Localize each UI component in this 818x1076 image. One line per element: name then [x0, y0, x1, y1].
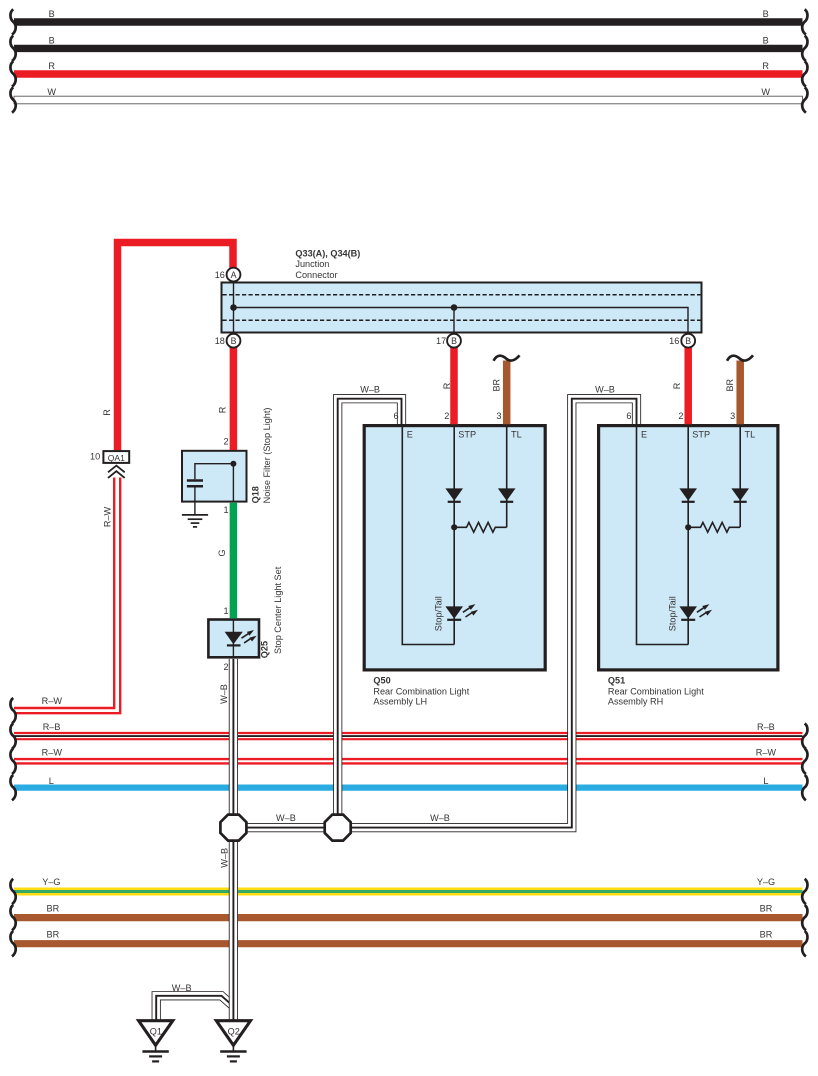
- diode Q51 STP: [679, 488, 697, 500]
- diode Q51 TL: [731, 488, 749, 500]
- LED diode Q25: [225, 632, 243, 645]
- svg-text:B: B: [451, 336, 457, 346]
- wire bus inside junction to pin16B: [234, 308, 689, 341]
- LED arrows Q25: [242, 630, 257, 643]
- LED diode Q51 stop/tail: [679, 606, 697, 618]
- svg-text:Connector: Connector: [295, 270, 337, 280]
- svg-text:R: R: [218, 406, 228, 413]
- wire bus R-B: [14, 733, 803, 739]
- svg-text:R: R: [762, 61, 769, 71]
- wire W-B branch octagon to Q1 ground: [156, 996, 232, 1022]
- svg-text:B: B: [49, 9, 55, 19]
- svg-text:3: 3: [730, 411, 735, 421]
- wire inside junction to pin17B: [453, 308, 455, 341]
- svg-text:A: A: [231, 270, 237, 280]
- svg-text:R–B: R–B: [757, 722, 775, 732]
- resistor Q51: [688, 522, 740, 532]
- svg-text:E: E: [641, 430, 647, 440]
- squiggle R-B right: [802, 723, 807, 748]
- svg-text:6: 6: [626, 411, 631, 421]
- svg-text:Y–G: Y–G: [42, 877, 60, 887]
- TOPBUSES: [10, 9, 807, 112]
- pin circle 17B: [447, 334, 461, 348]
- svg-text:Stop/Tail: Stop/Tail: [667, 596, 677, 631]
- svg-text:2: 2: [224, 436, 229, 446]
- svg-text:2: 2: [678, 411, 683, 421]
- svg-text:QA1: QA1: [108, 453, 125, 463]
- svg-text:3: 3: [496, 411, 501, 421]
- squiggle R-W left: [10, 749, 15, 774]
- svg-text:R: R: [672, 382, 682, 389]
- svg-text:Noise Filter (Stop Light): Noise Filter (Stop Light): [262, 408, 272, 504]
- svg-text:E: E: [407, 430, 413, 440]
- wire Q18 internal right leg: [232, 464, 234, 502]
- svg-text:16: 16: [215, 270, 225, 280]
- wire bus B (second): [14, 45, 803, 52]
- squiggle B top right: [802, 9, 807, 34]
- ground triangle Q1: [139, 1021, 173, 1046]
- svg-text:B: B: [49, 35, 55, 45]
- svg-text:W–B: W–B: [219, 848, 229, 868]
- squiggle Y-G left: [10, 879, 15, 904]
- LED arrows Q51: [697, 604, 712, 617]
- BOXES: [182, 426, 778, 670]
- squiggle R right: [802, 61, 807, 86]
- wire bus B (top): [14, 18, 803, 25]
- ground symbol Q2: [220, 1045, 246, 1061]
- pin circle 16A: [227, 268, 241, 282]
- svg-text:1: 1: [224, 505, 229, 515]
- svg-text:B: B: [685, 336, 691, 346]
- svg-text:B: B: [763, 35, 769, 45]
- ground symbol under Q18: [182, 515, 208, 527]
- squiggle R-W right: [802, 749, 807, 774]
- Q50 internals: [402, 427, 506, 645]
- svg-text:W–B: W–B: [430, 813, 450, 823]
- wire E leg Q51: [637, 427, 689, 645]
- squiggle W right: [802, 87, 807, 112]
- svg-text:BR: BR: [47, 929, 60, 939]
- wire W-B octagon1 to octagon2: [233, 823, 337, 832]
- wire E leg Q50: [402, 427, 454, 645]
- squiggle Y-G right: [802, 879, 807, 904]
- connector QA1 box: [103, 451, 129, 463]
- svg-text:Assembly LH: Assembly LH: [373, 697, 427, 707]
- wire W-B octagon2 to Q51 pin6: [338, 399, 637, 828]
- noise filter Q18 box: [182, 451, 247, 502]
- pin circle 16B right: [681, 334, 695, 348]
- capacitor C plate bottom: [187, 485, 203, 488]
- ground symbol Q1: [142, 1045, 168, 1061]
- squiggle B top left: [10, 9, 15, 34]
- svg-text:2: 2: [224, 662, 229, 672]
- svg-text:TL: TL: [511, 430, 522, 440]
- wire bus W: [14, 96, 803, 104]
- squiggle BR2 left: [10, 931, 15, 956]
- svg-text:Q51: Q51: [608, 676, 625, 686]
- squiggle R-B left: [10, 723, 15, 748]
- squiggle tilde above Q50 BR stub: [494, 355, 520, 361]
- squiggle L left: [10, 775, 15, 800]
- svg-text:L: L: [49, 776, 54, 786]
- connector QA1 chevrons: [108, 466, 125, 473]
- wire BR stub to Q50 TL pin3: [503, 361, 511, 425]
- svg-text:Q18: Q18: [250, 486, 260, 503]
- wire Q18 capacitor to ground: [194, 487, 196, 514]
- capacitor C plate top: [187, 479, 203, 482]
- squiggle W left: [10, 87, 15, 112]
- octagon splice node 2: [325, 815, 351, 841]
- stop center light Q25 box: [208, 620, 259, 658]
- wire R from QA1 up to junction pin 16A: [118, 243, 234, 451]
- svg-text:Q1: Q1: [150, 1027, 162, 1037]
- svg-text:Rear Combination Light: Rear Combination Light: [608, 686, 704, 696]
- squiggle L right: [802, 775, 807, 800]
- svg-text:R–W: R–W: [756, 748, 777, 758]
- node dot at 17B column: [451, 304, 458, 311]
- squiggle tilde above Q51 BR stub: [727, 355, 753, 361]
- svg-text:W: W: [761, 87, 770, 97]
- wire Q25 internal: [232, 620, 234, 657]
- octagon splice node 1: [220, 815, 246, 841]
- svg-text:16: 16: [669, 336, 679, 346]
- svg-text:1: 1: [224, 606, 229, 616]
- LED arrows Q50: [463, 604, 478, 617]
- ground triangle Q2: [216, 1021, 250, 1046]
- wire TL leg Q51: [739, 427, 741, 527]
- pin circle 18B: [227, 334, 241, 348]
- svg-text:BR: BR: [492, 378, 502, 391]
- svg-text:Y–G: Y–G: [757, 877, 775, 887]
- wire G Q18 pin1 to Q25 pin1: [230, 503, 238, 619]
- wire R junction pin16B to Q51 STP pin2: [684, 347, 692, 425]
- svg-text:W–B: W–B: [172, 983, 192, 993]
- diode Q50 STP: [445, 488, 463, 500]
- svg-text:W–B: W–B: [360, 384, 380, 394]
- squiggle R-W stub left: [10, 698, 15, 723]
- wire R junction pin18B to Q18 pin2: [230, 347, 238, 451]
- svg-text:B: B: [763, 9, 769, 19]
- node dot Q18 pin2: [230, 461, 236, 467]
- svg-text:W–B: W–B: [276, 813, 296, 823]
- wire bus BR (lower): [14, 940, 803, 947]
- node dot Q50 resistor: [451, 524, 457, 530]
- wire bus R: [14, 70, 803, 77]
- svg-text:Q25: Q25: [260, 641, 270, 658]
- svg-text:TL: TL: [745, 430, 756, 440]
- svg-text:W–B: W–B: [219, 684, 229, 704]
- COLORWIRES: [103, 243, 753, 619]
- svg-text:R–W: R–W: [42, 696, 63, 706]
- svg-text:STP: STP: [692, 430, 710, 440]
- svg-text:BR: BR: [47, 904, 60, 914]
- wire bus BR (upper): [14, 914, 803, 921]
- rear combination light Q50 box: [364, 426, 545, 670]
- wire W-B octagon2 to Q50 pin6: [338, 399, 402, 828]
- squiggle R left: [10, 61, 15, 86]
- svg-text:BR: BR: [760, 929, 773, 939]
- svg-text:L: L: [763, 776, 768, 786]
- svg-text:Q2: Q2: [228, 1027, 240, 1037]
- Q51 internals: [637, 427, 741, 645]
- svg-text:Stop Center Light Set: Stop Center Light Set: [273, 566, 283, 654]
- squiggle BR1 right: [802, 905, 807, 930]
- wire STP leg Q51: [687, 427, 689, 645]
- svg-text:R: R: [442, 382, 452, 389]
- svg-text:17: 17: [436, 336, 446, 346]
- svg-text:Q50: Q50: [373, 676, 390, 686]
- svg-text:R: R: [102, 409, 112, 416]
- JUNCTION: [222, 268, 702, 340]
- junction connector dashed line upper: [223, 294, 701, 296]
- svg-text:R–B: R–B: [43, 722, 61, 732]
- svg-text:Stop/Tail: Stop/Tail: [433, 596, 443, 631]
- svg-text:W–B: W–B: [595, 384, 615, 394]
- wire bus R-W (lower): [14, 759, 803, 763]
- svg-text:BR: BR: [725, 378, 735, 391]
- WBWIRES: [156, 399, 636, 1022]
- svg-text:10: 10: [90, 452, 100, 462]
- MIDBUSES: [10, 478, 807, 957]
- wire inside junction pin16A to pin18B: [233, 268, 235, 340]
- diode Q50 TL: [498, 488, 516, 500]
- GROUNDS: [139, 1021, 251, 1062]
- squiggle B2 left: [10, 36, 15, 61]
- wire BR stub to Q51 TL pin3: [736, 361, 744, 425]
- svg-text:Junction: Junction: [295, 259, 329, 269]
- wire STP leg Q50: [453, 427, 455, 645]
- wire R junction pin17B to Q50 STP pin2: [450, 347, 458, 425]
- squiggle B2 right: [802, 36, 807, 61]
- wire W-B Q25 to octagon splice: [229, 659, 238, 828]
- svg-text:Rear Combination Light: Rear Combination Light: [373, 686, 469, 696]
- svg-text:G: G: [217, 549, 227, 556]
- wire R-W stub to QA1: [14, 478, 120, 714]
- wire TL leg Q50: [506, 427, 508, 527]
- svg-text:R–W: R–W: [103, 506, 113, 527]
- wire bus L: [14, 784, 803, 790]
- svg-text:2: 2: [444, 411, 449, 421]
- rear combination light Q51 box: [599, 426, 778, 670]
- resistor Q50: [454, 522, 506, 532]
- LED diode Q50 stop/tail: [445, 606, 463, 618]
- squiggle BR2 right: [802, 931, 807, 956]
- svg-text:R–W: R–W: [42, 748, 63, 758]
- wire Q18 internal top: [195, 464, 234, 480]
- wire W-B octagon1 to Q2 ground: [229, 828, 238, 1022]
- node dot at 18B column: [230, 304, 237, 311]
- wire bus Y-G: [14, 888, 803, 896]
- svg-text:Assembly RH: Assembly RH: [608, 697, 663, 707]
- svg-text:W: W: [47, 87, 56, 97]
- node dot Q51 resistor: [685, 524, 691, 530]
- svg-text:R: R: [48, 61, 55, 71]
- squiggle BR1 left: [10, 905, 15, 930]
- svg-text:STP: STP: [458, 430, 476, 440]
- junction connector Q33/Q34 box: [222, 283, 702, 333]
- svg-text:18: 18: [215, 336, 225, 346]
- svg-text:Q33(A), Q34(B): Q33(A), Q34(B): [295, 248, 360, 258]
- svg-text:B: B: [231, 336, 237, 346]
- svg-text:6: 6: [394, 411, 399, 421]
- svg-text:BR: BR: [760, 904, 773, 914]
- junction connector dashed line lower: [223, 319, 701, 321]
